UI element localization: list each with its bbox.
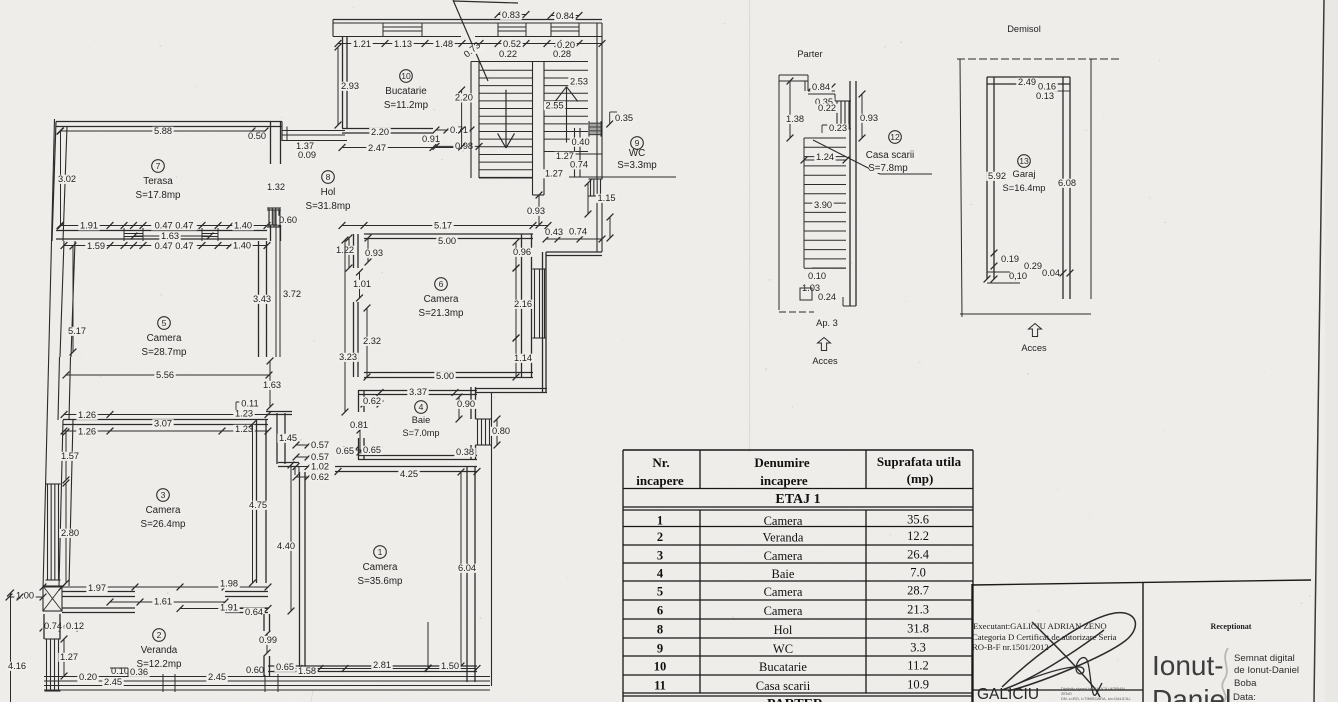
svg-text:21.3: 21.3 [907, 603, 929, 617]
svg-text:S=17.8mp: S=17.8mp [136, 190, 181, 201]
svg-text:Garaj: Garaj [1013, 168, 1036, 179]
svg-text:0.22: 0.22 [499, 49, 517, 59]
svg-text:Hol: Hol [774, 623, 793, 637]
svg-text:6.08: 6.08 [1058, 178, 1076, 188]
svg-text:1.02: 1.02 [311, 462, 329, 472]
svg-text:ETAJ 1: ETAJ 1 [775, 492, 820, 507]
svg-text:Semnat digital: Semnat digital [1234, 653, 1295, 664]
svg-text:Camera: Camera [363, 562, 398, 573]
svg-text:de Ionut-Daniel: de Ionut-Daniel [1234, 665, 1299, 676]
svg-text:6: 6 [439, 279, 444, 289]
svg-text:0.74: 0.74 [569, 227, 587, 237]
svg-text:1: 1 [378, 547, 383, 557]
svg-text:1.97: 1.97 [88, 583, 106, 593]
svg-text:31.8: 31.8 [907, 622, 929, 636]
svg-text:incapere: incapere [760, 473, 808, 488]
svg-text:3.23: 3.23 [339, 352, 357, 362]
svg-text:2.45: 2.45 [104, 677, 122, 687]
svg-text:1.45: 1.45 [279, 433, 297, 443]
svg-text:0.57: 0.57 [311, 440, 329, 450]
svg-text:0.28: 0.28 [553, 49, 571, 59]
svg-text:3.90: 3.90 [814, 200, 832, 210]
svg-text:12.2: 12.2 [907, 529, 929, 543]
svg-text:28.7: 28.7 [907, 584, 929, 598]
svg-text:0.74: 0.74 [44, 621, 62, 631]
svg-text:0.24: 0.24 [818, 292, 836, 302]
svg-text:2.47: 2.47 [368, 143, 386, 153]
svg-text:1.98: 1.98 [220, 579, 238, 589]
svg-text:Casa scarii: Casa scarii [866, 150, 914, 161]
svg-text:1.15: 1.15 [597, 193, 615, 203]
svg-text:10: 10 [654, 660, 667, 674]
svg-text:GALICIU: GALICIU [977, 686, 1039, 702]
svg-text:1.57: 1.57 [61, 451, 79, 461]
svg-text:Demisol: Demisol [1007, 24, 1041, 34]
svg-text:Camera: Camera [147, 333, 182, 344]
svg-text:2: 2 [157, 630, 162, 640]
svg-text:1.13: 1.13 [394, 39, 412, 49]
svg-text:S=28.7mp: S=28.7mp [142, 347, 187, 358]
svg-text:4.40: 4.40 [277, 541, 295, 551]
svg-text:0.81: 0.81 [350, 420, 368, 430]
svg-text:1.32: 1.32 [267, 182, 285, 192]
svg-text:0.60: 0.60 [246, 665, 264, 675]
svg-text:0.64: 0.64 [245, 607, 263, 617]
svg-text:1.91: 1.91 [80, 221, 98, 231]
svg-text:5: 5 [657, 585, 663, 599]
svg-text:Camera: Camera [424, 294, 459, 305]
svg-text:Terasa: Terasa [143, 176, 173, 187]
svg-text:0.09: 0.09 [298, 150, 316, 160]
svg-text:11.2: 11.2 [907, 659, 928, 673]
svg-text:2.53: 2.53 [570, 77, 588, 87]
svg-text:0.50: 0.50 [248, 131, 266, 141]
svg-text:Veranda: Veranda [763, 531, 804, 545]
svg-text:3: 3 [657, 549, 663, 563]
svg-text:0.22: 0.22 [818, 103, 836, 113]
svg-text:3.37: 3.37 [409, 387, 427, 397]
svg-text:6: 6 [657, 604, 663, 618]
svg-text:5.56: 5.56 [156, 370, 174, 380]
svg-text:1.50: 1.50 [441, 661, 459, 671]
svg-text:1.91: 1.91 [220, 603, 238, 613]
svg-text:0.65: 0.65 [363, 445, 381, 455]
svg-text:Hol: Hol [321, 187, 336, 198]
svg-text:1.59: 1.59 [87, 241, 105, 251]
svg-text:DN: c=RO, l=TIMISOARA, sn=GALI: DN: c=RO, l=TIMISOARA, sn=GALICIU, [1061, 696, 1131, 701]
svg-text:10.9: 10.9 [907, 678, 929, 692]
svg-text:5.00: 5.00 [436, 371, 454, 381]
svg-text:1.01: 1.01 [353, 279, 371, 289]
svg-text:1.24: 1.24 [816, 152, 834, 162]
svg-text:S=26.4mp: S=26.4mp [141, 519, 186, 530]
svg-text:Parter: Parter [797, 49, 822, 59]
svg-text:4: 4 [419, 402, 424, 412]
svg-text:0.19: 0.19 [1001, 254, 1019, 264]
svg-text:Nr.: Nr. [652, 455, 669, 470]
svg-text:1.61: 1.61 [154, 597, 172, 607]
svg-text:S=21.3mp: S=21.3mp [419, 308, 464, 319]
svg-text:4.75: 4.75 [249, 500, 267, 510]
svg-text:2.16: 2.16 [514, 299, 532, 309]
svg-text:0.93: 0.93 [527, 206, 545, 216]
svg-text:35.6: 35.6 [907, 513, 929, 527]
svg-text:Veranda: Veranda [141, 645, 178, 656]
svg-text:3.07: 3.07 [154, 419, 172, 429]
svg-text:0.23: 0.23 [829, 123, 847, 133]
svg-text:5.92: 5.92 [988, 171, 1006, 181]
svg-text:0.96: 0.96 [513, 247, 531, 257]
svg-text:2.20: 2.20 [371, 127, 389, 137]
svg-text:(mp): (mp) [907, 471, 934, 486]
svg-text:3: 3 [161, 490, 166, 500]
svg-text:0.47 0.47: 0.47 0.47 [155, 221, 194, 231]
svg-text:WC: WC [629, 148, 645, 159]
svg-text:4: 4 [657, 567, 664, 581]
svg-text:0.80: 0.80 [492, 426, 510, 436]
svg-text:7: 7 [156, 161, 161, 171]
svg-text:0.84: 0.84 [812, 82, 830, 92]
svg-text:11: 11 [654, 679, 666, 693]
svg-text:0.47 0.47: 0.47 0.47 [155, 241, 194, 251]
svg-text:0.65: 0.65 [336, 446, 354, 456]
svg-text:1: 1 [657, 514, 663, 528]
svg-text:1.26: 1.26 [78, 410, 96, 420]
svg-text:Camera: Camera [764, 549, 803, 563]
svg-text:incapere: incapere [636, 473, 684, 488]
svg-text:Acces: Acces [1021, 343, 1047, 353]
svg-text:0.65: 0.65 [276, 662, 294, 672]
svg-text:2.55: 2.55 [546, 100, 564, 110]
svg-text:Bucatarie: Bucatarie [759, 660, 807, 674]
svg-text:9: 9 [635, 138, 640, 148]
svg-text:13: 13 [1019, 156, 1029, 166]
svg-text:Camera: Camera [764, 585, 803, 599]
svg-text:0.60: 0.60 [279, 215, 297, 225]
svg-text:S=31.8mp: S=31.8mp [306, 201, 351, 212]
svg-text:S=16.4mp: S=16.4mp [1003, 182, 1046, 193]
svg-text:2.93: 2.93 [341, 81, 359, 91]
svg-text:0.16: 0.16 [1038, 82, 1056, 92]
svg-text:WC: WC [773, 642, 793, 656]
svg-text:12: 12 [890, 132, 900, 142]
svg-text:0.83: 0.83 [502, 10, 520, 20]
svg-text:0.40: 0.40 [572, 137, 590, 147]
svg-text:0.84: 0.84 [556, 11, 574, 21]
svg-text:1.40: 1.40 [233, 241, 251, 251]
svg-text:2.45: 2.45 [208, 672, 226, 682]
svg-text:0.10: 0.10 [111, 666, 129, 676]
svg-text:8: 8 [326, 172, 331, 182]
svg-text:Casa scarii: Casa scarii [756, 679, 811, 693]
svg-text:7.0: 7.0 [910, 566, 926, 580]
svg-text:Boba: Boba [1234, 678, 1257, 689]
svg-text:0.90: 0.90 [457, 399, 475, 409]
svg-text:3.02: 3.02 [58, 174, 76, 184]
svg-text:2.20: 2.20 [455, 93, 473, 103]
svg-text:Receptionat: Receptionat [1211, 622, 1252, 631]
svg-text:0.35: 0.35 [615, 113, 633, 123]
svg-text:PARTER: PARTER [767, 697, 824, 702]
svg-text:Camera: Camera [764, 604, 803, 618]
svg-text:1.26: 1.26 [78, 427, 96, 437]
svg-text:0.91: 0.91 [422, 134, 440, 144]
svg-text:5.00: 5.00 [438, 236, 456, 246]
svg-text:4.25: 4.25 [400, 469, 418, 479]
svg-text:0.38: 0.38 [456, 447, 474, 457]
svg-text:2.32: 2.32 [363, 336, 381, 346]
svg-text:S=11.2mp: S=11.2mp [384, 100, 429, 111]
svg-text:0.12: 0.12 [66, 621, 84, 631]
svg-text:0.62: 0.62 [311, 472, 329, 482]
svg-text:0,10: 0,10 [1009, 271, 1027, 281]
svg-text:9: 9 [657, 642, 663, 656]
svg-text:Baie: Baie [772, 567, 795, 581]
svg-text:2: 2 [657, 530, 663, 544]
svg-text:3.72: 3.72 [283, 289, 301, 299]
svg-text:4.16: 4.16 [8, 661, 26, 671]
svg-text:0.99: 0.99 [259, 635, 277, 645]
svg-text:1.58: 1.58 [298, 666, 316, 676]
svg-text:0.10: 0.10 [808, 271, 826, 281]
svg-text:2.81: 2.81 [373, 660, 391, 670]
svg-text:2.49: 2.49 [1018, 77, 1036, 87]
svg-text:6.04: 6.04 [458, 563, 476, 573]
svg-text:1.63: 1.63 [161, 231, 179, 241]
svg-text:1.40: 1.40 [234, 221, 252, 231]
svg-text:2.80: 2.80 [61, 528, 79, 538]
svg-text:0.98: 0.98 [455, 141, 473, 151]
svg-text:0.52: 0.52 [503, 39, 521, 49]
svg-text:5.17: 5.17 [434, 221, 452, 231]
svg-text:S=3.3mp: S=3.3mp [617, 160, 657, 171]
svg-text:S=7.8mp: S=7.8mp [868, 163, 908, 174]
svg-text:3.43: 3.43 [253, 294, 271, 304]
svg-text:Acces: Acces [812, 356, 838, 366]
svg-text:1.38: 1.38 [786, 114, 804, 124]
svg-text:Bucatarie: Bucatarie [385, 86, 427, 97]
svg-text:0.93: 0.93 [365, 248, 383, 258]
svg-text:0.93: 0.93 [860, 113, 878, 123]
svg-text:5.17: 5.17 [68, 326, 86, 336]
svg-text:3.3: 3.3 [910, 641, 926, 655]
svg-text:Ap. 3: Ap. 3 [816, 318, 838, 328]
svg-text:1.48: 1.48 [435, 39, 453, 49]
svg-text:1.27: 1.27 [545, 169, 563, 179]
svg-text:0.29: 0.29 [1024, 261, 1042, 271]
svg-text:0.62: 0.62 [363, 396, 381, 406]
svg-text:S=7.0mp: S=7.0mp [402, 428, 439, 438]
svg-text:Daniel: Daniel [1152, 684, 1231, 702]
svg-text:5: 5 [162, 318, 167, 328]
svg-text:1.63: 1.63 [263, 380, 281, 390]
svg-text:0.36: 0.36 [130, 667, 148, 677]
svg-text:RO-B-F nr.1501/2012: RO-B-F nr.1501/2012 [972, 642, 1049, 652]
svg-text:1.21: 1.21 [353, 39, 371, 49]
svg-text:5.88: 5.88 [154, 126, 172, 136]
svg-text:Camera: Camera [764, 514, 803, 528]
svg-text:Camera: Camera [146, 505, 181, 516]
svg-text:0.11: 0.11 [241, 399, 258, 409]
svg-text:S=35.6mp: S=35.6mp [358, 576, 403, 587]
svg-text:1.14: 1.14 [514, 353, 532, 363]
svg-text:1.27: 1.27 [60, 652, 78, 662]
svg-text:Data:: Data: [1233, 692, 1256, 702]
svg-text:10: 10 [401, 71, 411, 81]
svg-text:0.20: 0.20 [79, 672, 97, 682]
svg-text:Suprafata utila: Suprafata utila [877, 454, 962, 469]
svg-text:Baie: Baie [412, 415, 430, 425]
svg-text:0.74: 0.74 [570, 160, 588, 170]
svg-text:Ionut-: Ionut- [1152, 650, 1224, 681]
svg-text:Denumire: Denumire [754, 455, 810, 470]
svg-text:0.13: 0.13 [1036, 91, 1054, 101]
svg-text:0.43: 0.43 [545, 227, 563, 237]
svg-text:8: 8 [657, 623, 663, 637]
svg-text:0.57: 0.57 [311, 452, 329, 462]
svg-text:1.23: 1.23 [235, 409, 253, 419]
svg-text:26.4: 26.4 [907, 548, 930, 562]
svg-text:0.04: 0.04 [1042, 268, 1060, 278]
